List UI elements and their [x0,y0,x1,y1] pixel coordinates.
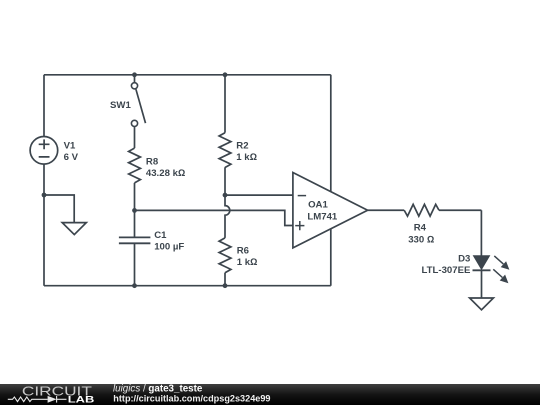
ground (left, below V1) [44,195,86,235]
svg-text:LAB: LAB [68,395,95,405]
op-amp OA1 [293,173,368,248]
resistor R6 [219,238,231,273]
wire LED to ground [481,270,483,298]
label D3 value [422,253,471,276]
svg-text:http://circuitlab.com/cdpsg2s3: http://circuitlab.com/cdpsg2s324e99 [113,393,270,403]
label OA1 type [307,200,338,223]
wire inverting input [225,194,293,196]
resistor R8 [129,148,141,183]
svg-text:LM741: LM741 [307,211,338,222]
svg-text:C1: C1 [154,230,167,241]
svg-text:V1: V1 [64,140,76,151]
wire op-amp V+ supply [330,75,332,210]
wire node to C1 [134,210,136,237]
svg-text:100 µF: 100 µF [154,242,184,253]
wire bottom rail [44,285,331,287]
node junction R8 / C1 / non-inverting wire [132,208,137,213]
node junction top rail / SW1 [132,72,137,77]
wire C1 to bottom rail [134,243,136,285]
voltage source V1 [30,137,58,165]
label R6 value [237,245,258,268]
wire op-amp V- supply [330,210,332,286]
wire R4 to corner [439,209,481,211]
svg-text:1 kΩ: 1 kΩ [237,257,258,268]
label R2 value [236,140,257,163]
wire R6 top with hop [225,195,230,238]
wire top rail [44,74,331,76]
svg-text:6 V: 6 V [64,152,79,163]
label R4 value [408,223,434,246]
node junction R6 / bottom rail [223,283,228,288]
svg-text:R6: R6 [237,245,249,256]
node junction at V1/ground tap [42,193,47,198]
wire op-amp output [368,209,405,211]
resistor R2 [219,133,231,168]
wire node horizontal to non-inverting input [135,210,293,225]
node junction C1 / bottom rail [132,283,137,288]
svg-text:R8: R8 [146,156,159,167]
LED D3 [473,256,510,283]
svg-text:OA1: OA1 [308,200,328,211]
ground (below LED) [470,298,494,310]
resistor R4 [404,204,439,216]
svg-text:D3: D3 [458,253,470,264]
node junction top rail / R2 [223,72,228,77]
svg-text:SW1: SW1 [110,100,131,111]
wire R2 to node [224,167,226,195]
svg-text:1 kΩ: 1 kΩ [236,152,257,163]
capacitor C1 [119,237,150,243]
label R8 value [146,156,185,179]
svg-text:330 Ω: 330 Ω [408,234,434,245]
svg-text:43.28 kΩ: 43.28 kΩ [146,168,185,179]
svg-text:R4: R4 [414,223,427,234]
svg-text:R2: R2 [236,140,248,151]
wire corner down to LED [480,210,482,256]
wire R2 column [224,75,226,133]
wire R8 to node [134,183,136,211]
wire switch to R8 [134,127,136,148]
label C1 value [154,230,184,253]
wire R6 bottom [224,273,226,286]
label V1 value [64,140,79,163]
wire left vertical [43,75,45,286]
CircuitLab logo schematic glyph [8,396,67,403]
node junction R2 / inverting input [223,193,228,198]
switch SW1 [131,75,145,127]
svg-text:LTL-307EE: LTL-307EE [422,265,471,276]
